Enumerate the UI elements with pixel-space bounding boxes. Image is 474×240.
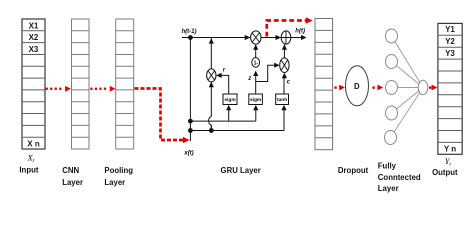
svg-text:x(t): x(t) [183, 151, 193, 157]
svg-text:Pooling: Pooling [104, 166, 133, 175]
svg-text:Layer: Layer [378, 184, 399, 193]
svg-text:Layer: Layer [62, 178, 83, 187]
svg-text:1-: 1- [254, 60, 259, 66]
svg-text:Layer: Layer [104, 178, 125, 187]
svg-text:Input: Input [19, 165, 38, 174]
svg-text:Y3: Y3 [445, 49, 455, 58]
svg-text:Y n: Y n [444, 144, 456, 153]
svg-text:D: D [354, 82, 360, 91]
svg-text:Output: Output [432, 168, 458, 177]
svg-text:h(t): h(t) [295, 29, 305, 35]
svg-text:sigm: sigm [224, 97, 235, 103]
svg-text:Fully: Fully [378, 161, 397, 170]
svg-text:X n: X n [27, 140, 40, 149]
svg-text:z: z [247, 76, 251, 82]
svg-text:GRU Layer: GRU Layer [221, 166, 261, 175]
svg-text:h(t-1): h(t-1) [182, 29, 197, 35]
svg-text:tanh: tanh [277, 97, 287, 103]
svg-text:Y2: Y2 [445, 37, 455, 46]
svg-text:sigm: sigm [250, 97, 261, 103]
svg-text:Conntected: Conntected [378, 173, 421, 182]
svg-text:X1: X1 [29, 21, 39, 30]
svg-text:X2: X2 [29, 33, 39, 42]
svg-text:Dropout: Dropout [338, 166, 369, 175]
svg-text:CNN: CNN [62, 166, 79, 175]
svg-text:Y1: Y1 [445, 25, 455, 34]
svg-text:X3: X3 [29, 45, 39, 54]
